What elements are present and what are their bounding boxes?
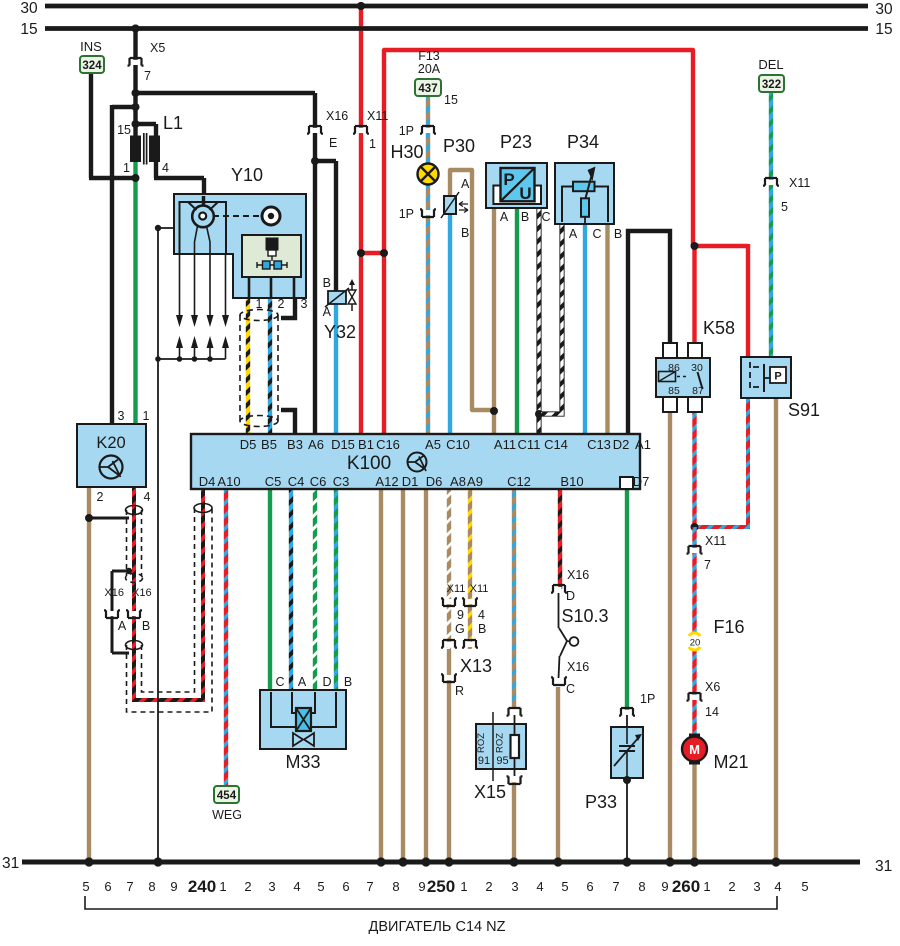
fuse F16 [688, 633, 701, 650]
svg-text:X5: X5 [150, 41, 165, 55]
svg-text:2: 2 [97, 490, 104, 504]
brown/white wire K100 A8 to X13 [447, 489, 451, 649]
svg-text:1P: 1P [399, 124, 414, 138]
svg-text:20: 20 [690, 638, 701, 649]
svg-text:95: 95 [496, 755, 508, 767]
junction bus 30 [357, 2, 365, 10]
junction P30/P23-A [490, 407, 498, 415]
svg-text:A10: A10 [217, 474, 240, 489]
svg-text:A1: A1 [635, 437, 651, 452]
shield of K20-D4 cable, section 1 [126, 506, 143, 515]
svg-text:C12: C12 [507, 474, 531, 489]
wire down to K20 pin3 [110, 105, 114, 426]
junction Y32 branch [311, 157, 319, 165]
connector X16 pin A [104, 610, 120, 618]
svg-text:WEG: WEG [212, 808, 242, 822]
svg-text:P34: P34 [567, 132, 599, 152]
red wire K100 C16 / feed to K58,S91 [384, 50, 693, 436]
brown wire K58 pin85 to bus31 [668, 410, 672, 862]
wire down to L1 terminal 15 [133, 93, 137, 136]
svg-text:14: 14 [705, 705, 719, 719]
svg-text:B3: B3 [287, 437, 303, 452]
svg-text:X15: X15 [474, 782, 506, 802]
switch S91 [741, 357, 791, 398]
svg-text:ДВИГАТЕЛЬ C14 NZ: ДВИГАТЕЛЬ C14 NZ [369, 919, 506, 935]
svg-text:X16: X16 [567, 660, 589, 674]
svg-text:B: B [142, 619, 150, 633]
junction P33 ground [623, 776, 631, 784]
junction on bus 31 [509, 857, 518, 866]
spark gap arrow 2 [191, 336, 198, 348]
svg-text:B1: B1 [358, 437, 374, 452]
svg-text:R: R [455, 684, 464, 698]
wire L1 pin4 down [154, 160, 158, 178]
fuel pump M21 [690, 734, 700, 739]
spark lead 3 [209, 254, 211, 316]
junction on bus 31 [665, 857, 674, 866]
black wire K100 A1 to K58 pin86 [628, 231, 670, 436]
svg-text:9: 9 [170, 879, 177, 894]
svg-text:X16: X16 [567, 568, 589, 582]
red wire bus30 to K100 B1 [359, 6, 363, 436]
svg-text:A: A [298, 675, 307, 689]
svg-text:6: 6 [586, 879, 593, 894]
svg-text:4: 4 [536, 879, 543, 894]
coil tower circle [262, 207, 280, 225]
junction X5/X16E [132, 89, 140, 97]
spark gap arrow 4 [222, 336, 229, 348]
svg-text:S10.3: S10.3 [561, 606, 608, 626]
Y10 pin 1 [248, 277, 251, 298]
wire Y10 housing to ground line [158, 227, 175, 229]
svg-text:H30: H30 [390, 142, 423, 162]
svg-text:G: G [455, 622, 465, 636]
dashed link to ignition coil output [213, 215, 259, 217]
idle actuator M33 [260, 690, 346, 749]
svg-text:3: 3 [301, 297, 308, 311]
svg-text:D7: D7 [633, 474, 650, 489]
connector 1P lower [420, 209, 436, 217]
svg-text:31: 31 [875, 858, 892, 875]
svg-text:30: 30 [20, 0, 38, 17]
wire branch to Y32 [315, 159, 336, 163]
svg-text:D5: D5 [240, 437, 257, 452]
blue/black wire K100 C4 to M33-A [289, 489, 293, 692]
label WEG 454 [214, 786, 239, 803]
svg-text:INS: INS [80, 39, 102, 54]
connector X11 pin 5 [763, 178, 779, 186]
label DEL 322 [759, 75, 784, 92]
wire to L1 primary top [136, 122, 157, 126]
svg-text:P23: P23 [500, 132, 532, 152]
svg-text:1: 1 [703, 879, 710, 894]
svg-text:5: 5 [801, 879, 808, 894]
connector X6 pin 14 [687, 693, 703, 701]
junction on bus 31 [376, 857, 385, 866]
spark lead 2 [194, 254, 196, 316]
spark return collector line [158, 358, 226, 360]
junction spark return [207, 356, 213, 362]
connector X13 (A8 side) [441, 640, 457, 648]
svg-text:1: 1 [460, 879, 467, 894]
distributor housing bracket [180, 202, 227, 254]
green wire P23-B to K100 C11 [515, 206, 519, 436]
brown/yellow wire K100 A9 to X13 [468, 489, 472, 649]
svg-text:ROZ: ROZ [495, 733, 506, 753]
svg-text:C: C [541, 210, 550, 224]
svg-text:F13: F13 [418, 49, 440, 63]
svg-text:X11: X11 [367, 109, 388, 123]
red link B1-C16 [361, 251, 384, 255]
svg-text:A5: A5 [425, 437, 441, 452]
junction bus15/X5 [132, 25, 140, 33]
svg-text:2: 2 [244, 879, 251, 894]
svg-text:A: A [461, 177, 470, 191]
svg-text:5: 5 [781, 200, 788, 214]
connector X11 pin 7 [687, 546, 703, 554]
svg-text:ROZ: ROZ [476, 733, 487, 753]
junction bus15/X5 [132, 25, 140, 33]
svg-text:K100: K100 [347, 453, 391, 474]
svg-text:P30: P30 [443, 136, 475, 156]
yellow/black wire Y10 pin1 to K100 D5 [246, 298, 250, 436]
spark plug symbol inside Y10 [266, 238, 278, 250]
Y10 pin 3 [293, 277, 296, 298]
red wire down to S91 [746, 244, 750, 359]
distributor cap notch left [188, 202, 197, 210]
svg-text:260: 260 [672, 877, 700, 896]
svg-text:6: 6 [342, 879, 349, 894]
svg-text:31: 31 [2, 855, 19, 872]
outline [536, 206, 541, 436]
wire INS-324 down [89, 70, 93, 178]
junction spark return [177, 356, 183, 362]
svg-text:B5: B5 [261, 437, 277, 452]
spark gap arrow 3 [207, 336, 214, 348]
svg-text:8: 8 [638, 879, 645, 894]
brown wire M21 to bus31 [692, 760, 696, 862]
brown wire K20 pin2 to ground bus [87, 485, 91, 862]
warning lamp H30 [418, 164, 439, 185]
svg-text:K20: K20 [96, 434, 125, 452]
svg-text:91: 91 [478, 755, 490, 767]
svg-text:86: 86 [668, 362, 680, 374]
svg-text:P: P [503, 170, 514, 189]
K100 pin D7 marker [620, 477, 633, 489]
svg-text:9: 9 [661, 879, 668, 894]
bus 15 overdraw [45, 26, 868, 31]
svg-text:1: 1 [256, 297, 263, 311]
brown wire S91 to bus31 [774, 396, 778, 862]
red/blue wire to M21 [692, 527, 696, 739]
svg-text:7: 7 [704, 558, 711, 572]
svg-text:F16: F16 [713, 617, 744, 637]
svg-text:1P: 1P [399, 207, 414, 221]
svg-text:7: 7 [144, 69, 151, 83]
red branch to S91 [693, 244, 748, 248]
junction on bus 31 [398, 857, 407, 866]
green/white wire K100 C6 to M33-D [313, 489, 317, 692]
junction on bus 31 [771, 857, 780, 866]
svg-text:U: U [519, 184, 531, 203]
wire shield ground link [89, 517, 129, 520]
svg-text:P: P [774, 371, 781, 383]
svg-text:1: 1 [123, 161, 130, 175]
blue wire Y32 to K100 D15 [334, 303, 338, 436]
red/black wire K100 B10 to X16-D [558, 489, 562, 589]
svg-text:D4: D4 [199, 474, 216, 489]
svg-text:3: 3 [511, 879, 518, 894]
svg-text:B: B [344, 675, 352, 689]
svg-text:D6: D6 [426, 474, 443, 489]
junction thin ground line [155, 225, 161, 231]
svg-text:15: 15 [20, 21, 37, 38]
spark lead 4 [225, 254, 227, 316]
svg-text:7: 7 [366, 879, 373, 894]
red/blue wire S91 down to junction [695, 396, 749, 527]
svg-text:2: 2 [728, 879, 735, 894]
connector X5 [128, 58, 144, 66]
svg-text:B: B [461, 226, 469, 240]
valve P33 [626, 715, 628, 730]
svg-text:15: 15 [875, 21, 892, 38]
svg-text:C13: C13 [587, 437, 611, 452]
bus 30 overdraw [45, 4, 868, 9]
ignition module Y10 [174, 194, 306, 298]
svg-text:4: 4 [293, 879, 300, 894]
svg-text:A12: A12 [375, 474, 398, 489]
svg-text:B: B [323, 276, 331, 290]
octane coding plug X15 [476, 724, 526, 769]
svg-text:2: 2 [278, 297, 285, 311]
green/blue wire K100 C3 to M33-B [334, 489, 338, 692]
svg-text:87: 87 [692, 385, 704, 397]
svg-text:1: 1 [143, 409, 150, 423]
svg-text:A9: A9 [467, 474, 483, 489]
svg-text:D: D [322, 675, 331, 689]
svg-text:4: 4 [774, 879, 781, 894]
svg-text:K58: K58 [703, 318, 735, 338]
svg-text:C: C [566, 682, 575, 696]
Y10 pin 2 [270, 277, 273, 298]
distributor rotor circle [192, 206, 214, 228]
svg-text:250: 250 [427, 877, 455, 896]
green wire K100 D7 to P33 [625, 489, 629, 712]
K100 icon [408, 453, 427, 472]
connector X16 pin C [551, 677, 567, 685]
relay K58 [663, 343, 677, 358]
blue/green wire DEL-322 to S91 [769, 92, 773, 359]
svg-text:D15: D15 [331, 437, 355, 452]
connector X11 pin 9 [441, 598, 457, 606]
wire to shield section 2 [112, 652, 129, 655]
svg-text:4: 4 [144, 490, 151, 504]
svg-text:M: M [689, 742, 700, 757]
connector X13 (A9 side) [462, 640, 478, 648]
svg-text:2: 2 [485, 879, 492, 894]
label fuse F13 437 [415, 79, 441, 96]
svg-text:X11: X11 [470, 583, 489, 595]
control unit K20 [77, 424, 146, 487]
outline [541, 224, 562, 414]
junction K20 branch [132, 103, 140, 111]
black/white wire P23-C to K100 C14 [537, 206, 540, 436]
svg-text:X11: X11 [789, 176, 810, 190]
valve Y32 [328, 291, 346, 304]
connector 1P upper [420, 126, 436, 134]
svg-text:240: 240 [188, 877, 216, 896]
svg-text:5: 5 [561, 879, 568, 894]
junction red/blue [691, 523, 699, 531]
junction on bus 31 [553, 857, 562, 866]
junction on bus 31 [84, 857, 93, 866]
connector X15 upper [507, 708, 523, 716]
svg-text:P33: P33 [585, 792, 617, 812]
svg-text:A8: A8 [450, 474, 466, 489]
wire shield to X16-A [112, 570, 129, 573]
connector X16 pin B [126, 610, 142, 618]
spark output 2 fan [195, 226, 198, 254]
connector X15 lower [507, 776, 523, 784]
connector X11 pin 4 [462, 598, 478, 606]
red/blue wire K58 pin87 down [692, 410, 696, 529]
junction bus30/B1 [357, 2, 365, 10]
junction L1 terminal 15 [132, 120, 140, 128]
svg-text:M33: M33 [285, 752, 320, 772]
Y10 inner module box [242, 235, 301, 277]
brown wire K100 D1 to bus31 [401, 489, 405, 862]
svg-text:3: 3 [268, 879, 275, 894]
junction C14 [535, 410, 543, 418]
svg-text:C14: C14 [544, 437, 568, 452]
blue/black wire Y10 pin2 to K100 B5 [268, 298, 272, 436]
svg-text:A: A [500, 210, 509, 224]
svg-text:A11: A11 [494, 437, 516, 452]
black/red shielded wire K20 pin4 to K100 D4 [134, 485, 203, 700]
svg-text:X6: X6 [705, 680, 720, 694]
svg-text:C16: C16 [376, 437, 400, 452]
wire down to Y32 pin B [334, 161, 338, 293]
brown/blue wire fuse F13 to K100 A5 [426, 96, 430, 436]
distributor cap notch right [210, 202, 219, 210]
blue wire P30-B to K100 C10 [448, 212, 452, 436]
svg-text:B: B [478, 622, 486, 636]
svg-text:C: C [275, 675, 284, 689]
spark output 3 fan [207, 226, 211, 254]
svg-text:X16: X16 [132, 587, 152, 599]
wire down to X16-A [111, 571, 114, 612]
svg-text:M21: M21 [713, 752, 748, 772]
switch S10.3 lower lead [559, 656, 560, 678]
wire X16-A down [111, 612, 114, 653]
svg-text:DEL: DEL [758, 57, 783, 72]
junction shield drain [126, 568, 132, 574]
svg-text:4: 4 [162, 161, 169, 175]
red/blue wire K100 A10 to 454-WEG [224, 489, 228, 788]
wire node to X16-E branch [136, 91, 316, 95]
connector X11 pin 1 [353, 126, 369, 134]
svg-text:A6: A6 [308, 437, 324, 452]
shield of Y10 cable [240, 310, 278, 321]
bus 30 [45, 4, 868, 9]
svg-text:4: 4 [478, 608, 485, 622]
black/white wire P34-A to C14 junction [541, 224, 562, 414]
spark lead 1 [179, 254, 181, 316]
svg-text:B10: B10 [560, 474, 583, 489]
svg-text:S91: S91 [788, 400, 820, 420]
junction red link left [357, 249, 365, 257]
svg-text:7: 7 [126, 879, 133, 894]
engine bracket [85, 896, 777, 909]
wire L1 pin4 to Y10 [154, 176, 204, 180]
bus 31 (ground) [22, 860, 860, 865]
svg-text:L1: L1 [163, 113, 183, 133]
svg-text:C5: C5 [265, 474, 282, 489]
svg-text:B: B [614, 227, 622, 241]
svg-text:437: 437 [418, 83, 437, 95]
svg-text:1: 1 [219, 879, 226, 894]
svg-text:3: 3 [753, 879, 760, 894]
green wire L1 pin1 to K20 pin1 [133, 160, 137, 426]
switch S10.3 lead [558, 593, 560, 628]
connector X13 pin R [441, 674, 457, 682]
svg-text:C6: C6 [310, 474, 327, 489]
svg-text:A: A [323, 305, 332, 319]
svg-text:454: 454 [217, 790, 237, 802]
svg-text:C10: C10 [446, 437, 470, 452]
connector X16 pin D [551, 585, 567, 593]
red wire to K58 pin30 [692, 246, 696, 345]
svg-text:7: 7 [612, 879, 619, 894]
svg-text:324: 324 [82, 60, 102, 72]
svg-text:9: 9 [457, 608, 464, 622]
svg-text:D: D [566, 589, 575, 603]
ignition coil L1 [131, 136, 141, 162]
junction red link right [380, 249, 388, 257]
svg-text:6: 6 [104, 879, 111, 894]
blue wire P34-C to K100 C13 [583, 224, 587, 436]
svg-text:1: 1 [369, 137, 376, 151]
brown wire X15 to bus31 [512, 781, 516, 862]
svg-text:5: 5 [82, 879, 89, 894]
brown wire X13-R to bus31 [447, 649, 451, 862]
wire X16-E down to K100 A6 [313, 93, 317, 436]
svg-text:30: 30 [875, 1, 893, 18]
bus 15 [45, 26, 868, 31]
svg-text:8: 8 [148, 879, 155, 894]
shield of K20-D4 cable, section 2 (U route) [126, 641, 143, 650]
svg-text:1P: 1P [640, 692, 655, 706]
svg-text:3: 3 [118, 409, 125, 423]
svg-text:X11: X11 [705, 534, 726, 548]
switch S10.3 stub [567, 640, 570, 643]
wire INS-324 to L1 pin1 node [89, 176, 138, 180]
svg-text:Y32: Y32 [324, 322, 356, 342]
sensor P23 (MAP sensor) [486, 163, 547, 208]
junction spark return [155, 356, 161, 362]
svg-text:15: 15 [117, 123, 131, 137]
junction INS wire on green [132, 174, 140, 182]
svg-text:A: A [118, 619, 127, 633]
svg-text:15: 15 [444, 93, 458, 107]
connector 1P of P33 [619, 708, 635, 716]
label INS 324 [80, 56, 104, 73]
switch S10.3 lever lower [560, 641, 567, 656]
svg-text:C11: C11 [518, 437, 541, 452]
svg-text:D1: D1 [402, 474, 419, 489]
svg-text:E: E [329, 136, 337, 150]
svg-text:8: 8 [392, 879, 399, 894]
